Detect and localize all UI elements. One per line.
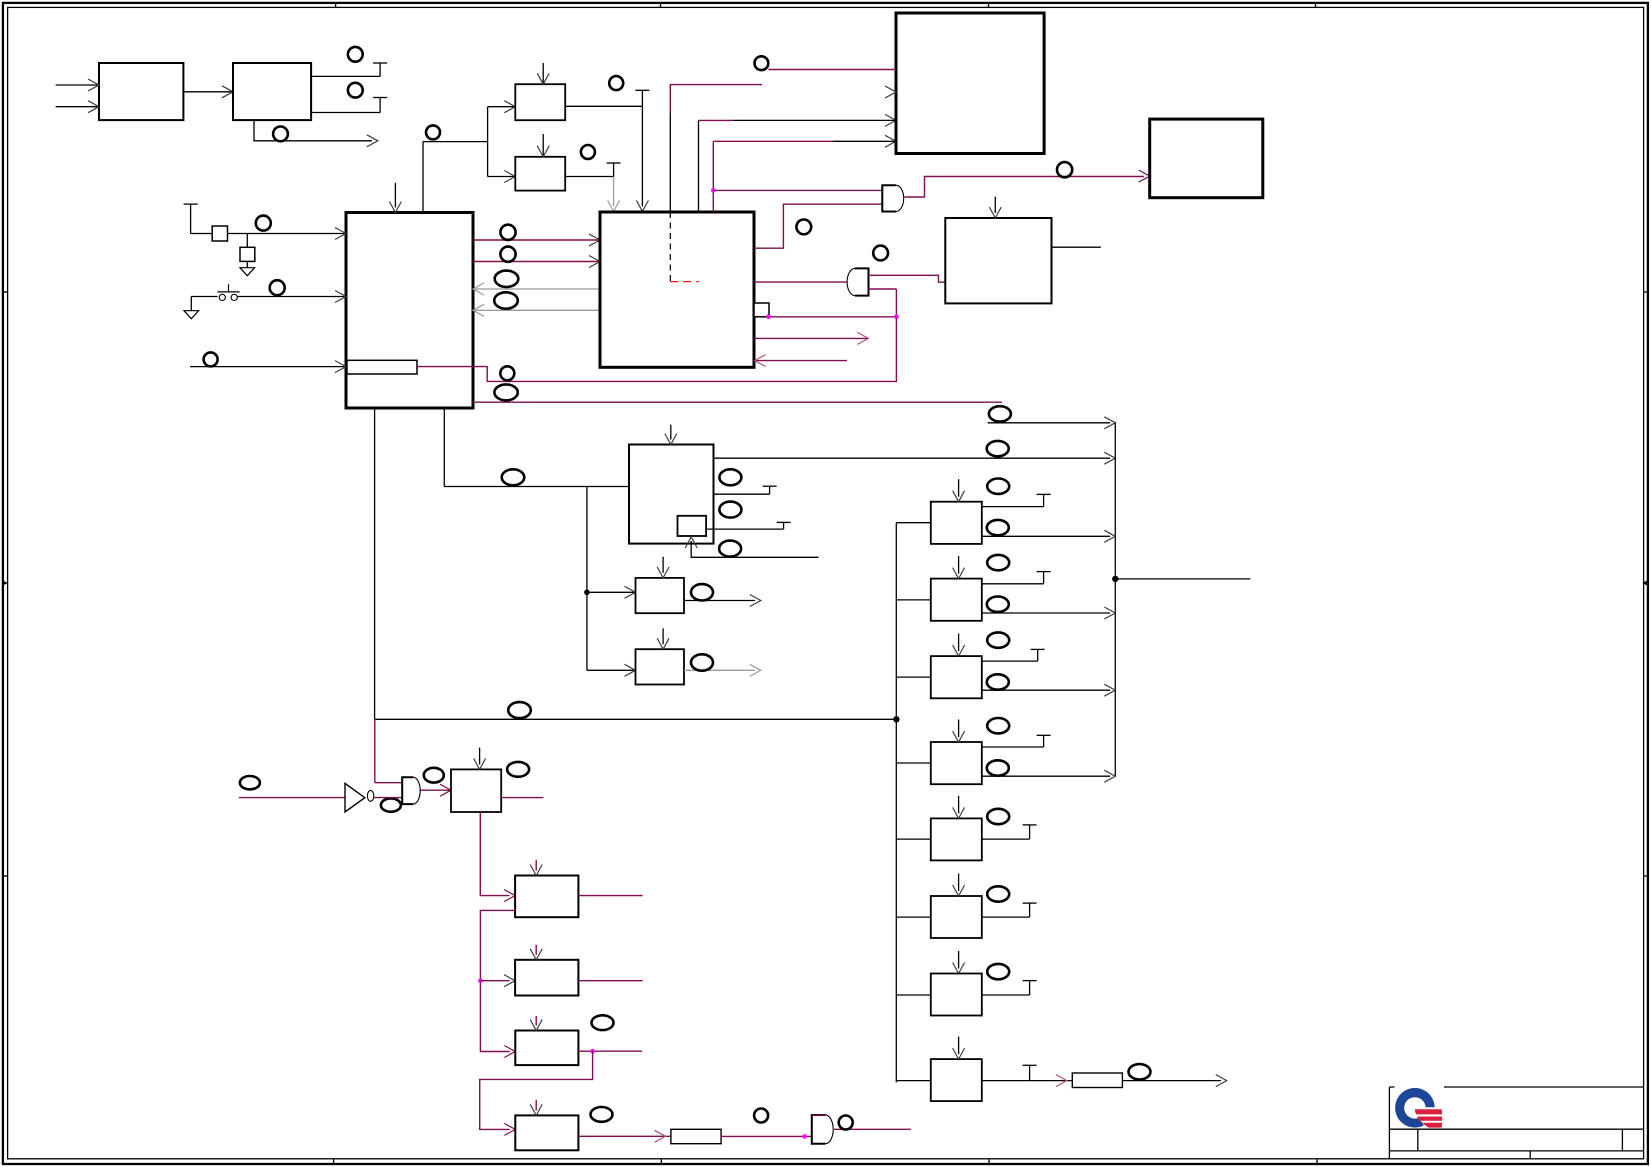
clock arrow into E4 [535, 1100, 537, 1110]
and-gate G3 [812, 1115, 833, 1144]
push switch [219, 294, 225, 300]
gray wire B2 net down into U2 top [613, 177, 615, 207]
net bubble [755, 56, 769, 70]
junction [893, 716, 899, 722]
purple vertical to G4 [374, 719, 376, 782]
net bubble [754, 1109, 768, 1123]
purple bus E1 to E2 to E3 [480, 910, 515, 1051]
junction [478, 978, 483, 983]
wire into B1 [488, 106, 516, 108]
gray wire U2 to U1 second [473, 309, 600, 311]
wire A2 output 1 with T terminator [311, 75, 380, 77]
net bubble [609, 76, 623, 90]
block H2 [636, 578, 685, 613]
wire bus into block R4 [896, 762, 931, 764]
net bubble [987, 809, 1009, 824]
net bubble [426, 125, 440, 139]
net bubble [987, 479, 1009, 494]
clock arrow into U1 top [394, 183, 396, 208]
wire R4 output with T terminator [982, 746, 1044, 748]
junction [894, 315, 899, 320]
wire U1 bottom long vertical [374, 408, 376, 719]
net bubble [495, 271, 519, 287]
net bubble [691, 654, 713, 670]
left feeder bus of right column [895, 523, 897, 1083]
block H3 [636, 649, 685, 684]
branch to SQ2 [246, 234, 248, 248]
clock arrow into R8 [958, 1037, 960, 1055]
ground for switch branch [184, 311, 199, 319]
purple wire into inverter [239, 797, 345, 799]
net bubble [270, 280, 285, 295]
net bubble [987, 964, 1009, 979]
net bubble [987, 760, 1009, 775]
right collector bus [1114, 423, 1116, 776]
net bubble [381, 798, 401, 811]
clock arrow into B1 [542, 63, 544, 84]
block R5 [931, 818, 982, 860]
wire B1 output with T terminator [565, 105, 642, 107]
wire long horizontal to right column bus [375, 718, 897, 720]
block R6 [931, 896, 982, 938]
block U2 [600, 212, 754, 367]
wire R8 output with T terminator [982, 1080, 1030, 1082]
wire into C1 input 4 [833, 140, 896, 142]
junction [766, 315, 771, 320]
net bubble [691, 584, 713, 600]
clock arrow into H3 [662, 628, 664, 644]
net bubble [500, 247, 515, 262]
block A2 [233, 63, 311, 120]
wire through series component into U1 [191, 233, 346, 235]
block B2 [515, 157, 565, 191]
block F1 [451, 769, 501, 812]
block H1 [629, 445, 714, 544]
purple wire resistor to G3 [721, 1135, 812, 1137]
title block left edge [1388, 1087, 1390, 1159]
purple wire notch to G2 net [769, 316, 896, 318]
long purple output of U1 [473, 401, 1002, 403]
component SQ1 [212, 226, 227, 241]
wire H2 output arrow [684, 600, 755, 602]
purple wire G4 output to F1 [421, 789, 451, 791]
clock arrow into R5 [958, 796, 960, 814]
wire R2 output with T terminator [982, 583, 1044, 585]
border zone ticks right [1644, 291, 1649, 293]
net bubble [987, 632, 1009, 647]
purple wire F1 down to E1 [480, 812, 509, 896]
block U1 [346, 213, 473, 409]
wire R2 second output to bus [982, 612, 1110, 614]
wire B1 net down into U2 top [641, 106, 643, 206]
net bubble [987, 886, 1009, 901]
net bubble [592, 1015, 614, 1030]
net bubble [719, 541, 741, 557]
purple net into U2 top third [712, 141, 714, 212]
purple wire U1 to U2 second [473, 261, 600, 263]
wire A2 output 2 with T terminator [311, 112, 380, 114]
purple wire E3 output [578, 1050, 642, 1052]
wire R3 second output to bus [982, 689, 1110, 691]
title block bottom divider [1529, 1151, 1531, 1159]
net bubble [796, 220, 811, 235]
wire bus into block R2 [896, 599, 931, 601]
purple chevron before R8 resistor [1056, 1075, 1067, 1087]
border center marker right [1644, 582, 1649, 584]
block R7 [931, 974, 982, 1016]
purple wire into C1 input 1 [768, 69, 896, 71]
power stub for input chain [184, 203, 198, 205]
net bubble [500, 366, 514, 380]
wire U1 bottom to H1 [444, 486, 629, 488]
border zone ticks left [2, 291, 7, 293]
purple wire F1 output [501, 797, 543, 799]
wire R3 output with T terminator [982, 660, 1038, 662]
inverter [345, 783, 365, 812]
wire H1 top output to right bus [714, 457, 1111, 459]
title block row line 2 [1389, 1128, 1644, 1130]
block D1 [1150, 119, 1263, 198]
black continuation into U2 top [669, 112, 671, 212]
net bubble [1129, 1064, 1151, 1079]
wire bus into block R6 [896, 916, 931, 918]
junction [590, 1049, 595, 1054]
wire into H3 [587, 669, 636, 671]
purple wire E1 output [578, 895, 642, 897]
wire bus into block R8 [896, 1080, 931, 1082]
wire into H2 [587, 591, 636, 593]
junction [584, 590, 590, 596]
purple arrow out of U2 [754, 337, 868, 339]
net bubble [719, 502, 741, 518]
logo white backing [1395, 1084, 1445, 1130]
wire first arrow into right bus [988, 422, 1110, 424]
wire inverter to G4 [374, 797, 402, 799]
block R3 [931, 656, 982, 698]
wire bus into block R3 [896, 676, 931, 678]
junction [802, 1134, 807, 1139]
wire H1 output 2 with T terminator [714, 493, 770, 495]
wire A2 bottom output arrow [254, 120, 372, 141]
wire input 3 to U1 [190, 366, 346, 368]
net bubble [424, 768, 444, 783]
block D2 [945, 218, 1051, 303]
block A1 [99, 63, 183, 120]
wire bus into block R5 [896, 838, 931, 840]
wire bus into block R7 [896, 994, 931, 996]
purple wire E4 output to resistor [578, 1135, 671, 1137]
border center marker left [2, 582, 7, 584]
chevron C1 input 2 [885, 86, 896, 98]
net bubble [987, 555, 1009, 570]
sub-block inside H1 [678, 516, 707, 536]
wire R6 output with T terminator [982, 916, 1030, 918]
wire D2 output [1052, 246, 1101, 248]
purple wire E2 output [578, 980, 642, 982]
net bubble [348, 83, 363, 98]
block B1 [515, 84, 565, 120]
net bubble [591, 1107, 613, 1122]
net bubble [987, 520, 1009, 535]
wire U1 bottom to H cluster [443, 408, 445, 487]
purple jog E3 to E4 [480, 1051, 593, 1129]
purple arrow into U2 [755, 360, 847, 362]
component SQ2 [240, 247, 255, 261]
wire R1 second output to bus [982, 535, 1110, 537]
block R1 [931, 502, 982, 544]
net bubble [989, 406, 1011, 421]
logo red stripes [1415, 1109, 1443, 1114]
wire switch to U1 [237, 296, 346, 298]
block R4 [931, 742, 982, 784]
wire into B2 [488, 176, 516, 178]
wire R7 output with T terminator [982, 994, 1030, 996]
block E3 [515, 1031, 578, 1066]
border zone ticks bottom [333, 1159, 335, 1164]
wire sub-block output with T terminator [706, 528, 784, 530]
net bubble [987, 718, 1009, 733]
purple net from notch to G2 branch [417, 289, 896, 381]
wire A1 to A2 [183, 91, 233, 93]
net bubble [494, 292, 518, 308]
ground [240, 268, 255, 276]
wire input 1 to A1 [56, 84, 99, 86]
purple wire G3 output [834, 1128, 911, 1130]
logo white fan backing [1413, 1107, 1445, 1130]
net bubble [508, 702, 531, 718]
resistor [671, 1129, 721, 1143]
purple wire G1 output to D1 [904, 177, 1144, 198]
logo blue ring [1395, 1088, 1435, 1128]
and-gate G4 [402, 777, 420, 804]
gray wire U2 to U1 first [473, 288, 600, 290]
net bubble [273, 126, 288, 141]
dashed internal net in U2 [669, 212, 671, 282]
and-gate G2 (mirrored) [847, 268, 868, 295]
gray wire H3 output arrow [684, 669, 755, 671]
purple stub on G3 top input [812, 1114, 827, 1116]
clock arrow into R6 [958, 874, 960, 892]
title block divider 1 [1417, 1129, 1419, 1151]
purple wire G2 to D2 [869, 275, 946, 282]
wire input 2 to A1 [56, 106, 99, 108]
block C1 [896, 13, 1044, 154]
net bubble [500, 225, 515, 240]
net bubble [507, 762, 529, 777]
clock arrow into H2 [662, 557, 664, 573]
clock arrow into H1 [670, 425, 672, 440]
clock arrow into D2 [994, 197, 996, 213]
wire branch into E2 [480, 980, 509, 982]
wire R1 output with T terminator [982, 506, 1044, 508]
sub-block notch on U1 left [347, 360, 417, 374]
purple wire G2 input B net [869, 288, 897, 290]
net bubble [494, 384, 517, 400]
clock arrow into R7 [958, 951, 960, 969]
wire B2 output with T terminator [565, 176, 613, 178]
block R8 [931, 1059, 982, 1101]
net bubble [1057, 162, 1072, 177]
purple branch to G1 input A [713, 189, 882, 191]
net bubble [240, 776, 260, 789]
net bubble [256, 216, 271, 231]
title block row line 3 [1389, 1150, 1644, 1152]
net bubble [204, 352, 218, 366]
purple corner net into U2 top [670, 85, 762, 113]
wire bus to right [1115, 578, 1250, 580]
wire R4 second output to bus [982, 775, 1110, 777]
block E1 [515, 876, 578, 918]
net bubble [987, 674, 1009, 689]
wire resistor to page edge arrow [1122, 1080, 1221, 1082]
net bubble [839, 1116, 853, 1130]
block E2 [515, 960, 578, 996]
title block divider 2 [1621, 1129, 1623, 1151]
wire R5 output with T terminator [982, 838, 1030, 840]
clock arrow into B2 [542, 134, 544, 157]
clock arrow into R3 [958, 634, 960, 652]
wire into C1 input 3 [733, 119, 896, 121]
net bubble [719, 469, 741, 485]
block R2 [931, 579, 982, 621]
wire to U1 top and B-feed [423, 141, 488, 143]
wire into sub-block from below [691, 541, 818, 557]
and-gate G1 [882, 185, 903, 211]
wire R8 stub to resistor [1030, 1080, 1073, 1082]
clock arrow into R4 [958, 720, 960, 738]
purple wire U1 to U2 upper [473, 239, 600, 241]
clock arrow into R2 [958, 556, 960, 574]
clock arrow into E1 [535, 860, 537, 871]
border zone ticks top [335, 2, 337, 7]
notch block on U2 right edge [754, 303, 769, 317]
net bubble [987, 441, 1009, 456]
branch vertical to H2 H3 [586, 487, 588, 671]
title block top line [1389, 1086, 1644, 1088]
junction [711, 188, 716, 193]
block E4 [515, 1115, 578, 1150]
wire U2 right to G1 input B [754, 204, 882, 248]
net corner into U2 top second [698, 120, 700, 212]
clock arrow into F1 [479, 748, 481, 765]
net bubble [502, 469, 525, 485]
wire B feed vertical [487, 107, 489, 177]
net bubble [348, 47, 363, 62]
clock arrow into E2 [535, 945, 537, 955]
red dashed internal net [670, 281, 699, 283]
wire bus into block R1 [896, 522, 931, 524]
net bubble [581, 145, 595, 159]
junction [1112, 576, 1118, 582]
clock arrow into E3 [535, 1016, 537, 1026]
net bubble [987, 597, 1009, 612]
resistor R8 output [1072, 1073, 1122, 1088]
net bubble [873, 246, 888, 261]
wire ground to switch [190, 297, 192, 311]
wire SQ2 to ground [246, 261, 248, 267]
purple wire G2 output to U2 [754, 281, 847, 283]
clock arrow into R1 [958, 479, 960, 497]
